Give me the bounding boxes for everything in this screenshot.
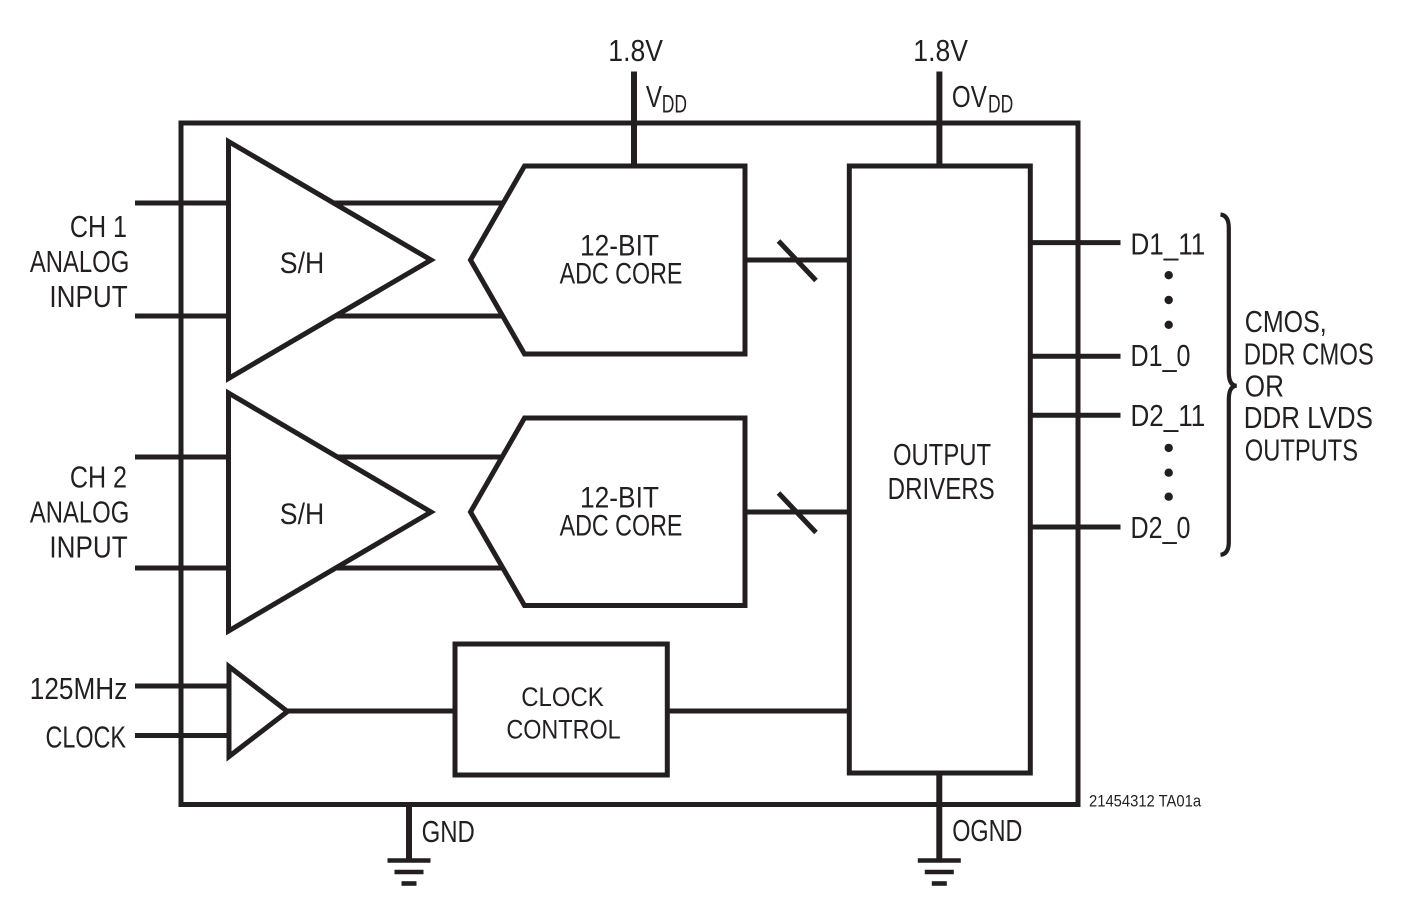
svg-text:CLOCK: CLOCK [521,683,604,713]
svg-text:ANALOG: ANALOG [30,494,129,529]
svg-text:CONTROL: CONTROL [506,715,620,745]
svg-text:CMOS,: CMOS, [1245,304,1327,338]
svg-text:DRIVERS: DRIVERS [888,471,995,506]
svg-text:DD: DD [662,89,687,118]
svg-text:S/H: S/H [280,498,324,532]
svg-text:GND: GND [422,814,475,849]
svg-text:D2_11: D2_11 [1131,399,1206,434]
svg-text:D2_0: D2_0 [1131,509,1191,544]
svg-text:DDR CMOS: DDR CMOS [1244,336,1374,371]
svg-text:D1_0: D1_0 [1131,337,1191,372]
svg-text:S/H: S/H [280,247,324,281]
svg-text:125MHz: 125MHz [30,672,128,707]
svg-text:1.8V: 1.8V [608,34,663,68]
svg-text:CLOCK: CLOCK [46,719,126,754]
svg-text:ADC CORE: ADC CORE [560,257,683,291]
svg-text:OR: OR [1245,369,1284,404]
svg-text:OGND: OGND [952,813,1022,848]
svg-text:OV: OV [952,79,987,114]
svg-text:DD: DD [988,89,1013,118]
svg-text:V: V [646,79,663,114]
svg-text:ANALOG: ANALOG [30,244,129,279]
svg-text:OUTPUT: OUTPUT [893,437,991,472]
svg-text:OUTPUTS: OUTPUTS [1245,432,1358,467]
svg-text:1.8V: 1.8V [913,34,968,68]
svg-text:INPUT: INPUT [49,530,127,565]
svg-text:INPUT: INPUT [49,280,127,315]
svg-text:21454312 TA01a: 21454312 TA01a [1089,793,1201,811]
svg-text:DDR LVDS: DDR LVDS [1244,401,1373,436]
svg-text:CH 2: CH 2 [70,459,127,494]
svg-text:CH 1: CH 1 [70,208,127,243]
svg-text:ADC CORE: ADC CORE [560,509,683,543]
svg-text:D1_11: D1_11 [1131,227,1206,262]
